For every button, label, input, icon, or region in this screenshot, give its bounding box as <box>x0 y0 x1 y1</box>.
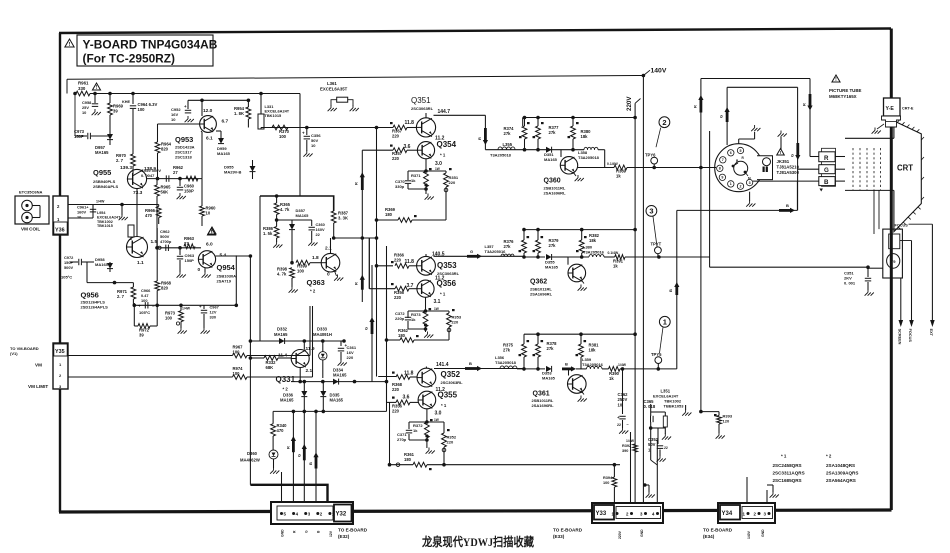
svg-text:22: 22 <box>617 423 621 427</box>
svg-text:27k: 27k <box>547 346 555 351</box>
wire 220 row <box>277 219 312 221</box>
svg-text:330: 330 <box>210 314 217 319</box>
svg-text:R961: R961 <box>78 81 89 86</box>
svg-text:18k: 18k <box>581 134 589 139</box>
capacitor C360 <box>308 220 325 246</box>
svg-text:4. 7k: 4. 7k <box>277 272 287 277</box>
wires into Y33 <box>631 428 658 506</box>
resistor R340 <box>271 411 294 436</box>
resistor R391 <box>604 251 625 269</box>
resistor R356b <box>392 397 418 414</box>
inductor L359 <box>576 357 604 369</box>
svg-text:22: 22 <box>664 446 668 450</box>
wire Q331 emitter row <box>291 368 388 384</box>
svg-text:2SA1696RL: 2SA1696RL <box>544 191 567 196</box>
svg-text:6.7: 6.7 <box>222 119 229 125</box>
svg-text:27k: 27k <box>549 130 557 135</box>
connector Y32 <box>271 502 353 524</box>
resistor R968 <box>155 228 172 305</box>
svg-text:10: 10 <box>171 117 176 122</box>
svg-text:G: G <box>470 249 473 254</box>
capacitor C952 <box>171 100 194 122</box>
diode D351 <box>544 147 558 162</box>
svg-text:Q954: Q954 <box>217 263 236 272</box>
svg-text:Y34: Y34 <box>722 511 733 517</box>
svg-text:R: R <box>354 282 359 285</box>
svg-text:2.1: 2.1 <box>325 246 332 252</box>
wire G to right <box>625 255 710 259</box>
wire Q360 emitter <box>578 167 614 169</box>
svg-text:G: G <box>305 530 309 533</box>
svg-text:11.2: 11.2 <box>436 387 446 393</box>
resistor R965 <box>155 179 172 248</box>
svg-text:Q953: Q953 <box>175 135 193 144</box>
signal arrow R up <box>693 95 704 113</box>
svg-text:220: 220 <box>392 409 400 414</box>
svg-text:* 1: * 1 <box>781 454 787 459</box>
svg-text:470: 470 <box>145 213 153 218</box>
connector Y36 <box>53 196 68 235</box>
svg-text:8: 8 <box>719 167 721 171</box>
resistor R373 <box>411 308 431 327</box>
wire 220V vertical rail <box>634 118 636 507</box>
svg-text:3.0: 3.0 <box>435 411 442 417</box>
svg-text:GND: GND <box>761 529 765 537</box>
signal arrow G down3 <box>297 444 307 460</box>
svg-text:2: 2 <box>740 185 742 189</box>
resistor R356 <box>391 283 417 300</box>
capacitor C372 <box>395 311 427 331</box>
svg-text:T3A205018: T3A205018 <box>578 155 600 160</box>
svg-text:220V: 220V <box>626 96 633 111</box>
svg-text:2. 7: 2. 7 <box>117 294 125 299</box>
wire B+ drop x300 <box>299 94 301 197</box>
transistor Q353 <box>417 252 460 277</box>
svg-text:11.2: 11.2 <box>435 276 445 282</box>
svg-text:6.0: 6.0 <box>206 242 213 248</box>
svg-text:12V: 12V <box>329 530 333 537</box>
svg-text:1: 1 <box>730 182 732 186</box>
inductor L351 block <box>644 389 692 440</box>
wire loop bottom <box>710 265 870 269</box>
svg-text:2.1: 2.1 <box>306 368 313 374</box>
svg-text:2SC3063RL: 2SC3063RL <box>441 380 464 385</box>
svg-text:(E34): (E34) <box>703 534 715 539</box>
resistor R381 <box>576 334 600 369</box>
resistor R392 <box>622 439 638 453</box>
diode D336 <box>280 380 307 412</box>
socket pins <box>717 147 753 189</box>
box R <box>819 148 836 186</box>
capacitor C963 <box>177 248 195 278</box>
callout 3 <box>646 206 657 247</box>
svg-text:Y33: Y33 <box>596 511 607 517</box>
diode D353 <box>542 366 556 381</box>
ground above Y33 <box>643 483 655 498</box>
ground socket top2 <box>778 131 787 151</box>
svg-text:Q360: Q360 <box>544 178 561 185</box>
svg-text:龙泉现代YDWJ扫描收藏: 龙泉现代YDWJ扫描收藏 <box>421 535 534 549</box>
svg-text:0: 0 <box>198 267 201 273</box>
svg-text:2SA564AQRS: 2SA564AQRS <box>826 478 856 483</box>
signal arrow G right <box>467 249 482 259</box>
transistor Q953 <box>175 108 229 160</box>
resistor R369 <box>375 207 446 222</box>
capacitor C973 <box>74 94 110 140</box>
label Y32 pins <box>281 528 368 540</box>
svg-text:18k: 18k <box>589 348 597 353</box>
svg-text:L355: L355 <box>503 142 513 147</box>
crt mask dashes <box>853 148 881 190</box>
svg-text:6: 6 <box>730 151 732 155</box>
svg-text:10: 10 <box>311 143 316 148</box>
resistor R398 <box>277 267 298 293</box>
capacitor C370 <box>395 179 428 191</box>
wire 220V rail row2 <box>522 228 637 232</box>
ground socket bottom <box>746 192 755 207</box>
transistor Q363 <box>307 246 340 294</box>
resistor R380 <box>568 118 592 150</box>
svg-text:G: G <box>719 115 724 118</box>
svg-text:27k: 27k <box>504 244 512 249</box>
svg-text:Q955: Q955 <box>93 168 111 177</box>
svg-text:R392: R392 <box>622 444 631 448</box>
connector Y-E <box>882 98 914 127</box>
transistor Q356 <box>417 276 457 306</box>
resistor R375 <box>503 334 529 369</box>
svg-text:2: 2 <box>662 118 666 127</box>
wire G loop <box>727 87 819 210</box>
wire Q363 collector row <box>331 236 379 253</box>
svg-text:TPY6: TPY6 <box>645 153 656 158</box>
wire Q354 emitter net <box>408 159 446 180</box>
svg-text:MA4062W: MA4062W <box>240 458 260 463</box>
test point TPY6 <box>645 153 658 168</box>
resistor R376 <box>504 230 530 257</box>
diode D957 <box>95 120 113 155</box>
warning triangle mid <box>207 228 215 236</box>
svg-text:T3A205016: T3A205016 <box>485 249 507 254</box>
svg-text:Y32: Y32 <box>336 512 347 518</box>
svg-text:R: R <box>693 105 698 108</box>
svg-text:* 1: * 1 <box>440 292 446 297</box>
signal arrow B right2 <box>779 203 795 213</box>
wire base vertical x386 <box>386 246 388 402</box>
svg-text:11.9: 11.9 <box>306 346 315 352</box>
svg-text:D360: D360 <box>247 451 258 456</box>
svg-text:MA165: MA165 <box>296 213 310 218</box>
wire Q954 base row <box>155 246 201 250</box>
resistor R963 <box>184 236 195 249</box>
svg-text:* 2: * 2 <box>310 289 316 294</box>
diode D333 <box>313 327 332 379</box>
resistor R962 <box>173 165 198 181</box>
ground Q363 <box>334 271 343 281</box>
capacitor C972 <box>61 255 94 280</box>
svg-text:GND: GND <box>281 529 285 537</box>
signal arrow R 2 <box>354 275 365 290</box>
wire G drive vertical2 <box>364 265 375 382</box>
svg-text:T3A205018: T3A205018 <box>490 153 512 158</box>
svg-text:TJ81A5210: TJ81A5210 <box>777 165 800 170</box>
transistor Q362 <box>530 257 587 297</box>
transistor Q955 <box>93 165 156 196</box>
label Y34 pins <box>703 528 765 540</box>
svg-text:Q361: Q361 <box>533 391 550 398</box>
label FOCUS top <box>895 224 909 228</box>
connector Y33 <box>592 503 663 523</box>
resistor R370 <box>272 125 290 139</box>
svg-text:MA165: MA165 <box>280 398 294 403</box>
box B <box>797 177 835 192</box>
wire B to right <box>620 367 677 371</box>
wire Q354 base <box>362 144 410 150</box>
wire Q955 emitter row <box>146 177 202 181</box>
ground socket top <box>739 125 761 144</box>
callout 1 <box>659 316 670 353</box>
svg-text:2SC1318: 2SC1318 <box>175 155 192 160</box>
svg-text:7: 7 <box>722 158 724 162</box>
svg-text:140V: 140V <box>747 530 751 539</box>
wires boxes to crt <box>835 157 845 182</box>
svg-text:R: R <box>286 446 291 449</box>
wire Q356 base <box>369 238 413 289</box>
capacitor C362 <box>617 367 630 434</box>
svg-text:T3A205016: T3A205016 <box>582 362 604 367</box>
resistor R390 <box>602 363 627 381</box>
svg-text:3. 3K: 3. 3K <box>338 216 348 221</box>
svg-text:3: 3 <box>649 207 653 216</box>
svg-text:330: 330 <box>78 86 86 91</box>
svg-text:VM: VM <box>35 363 42 368</box>
wire B down <box>314 410 318 506</box>
wire base vertical x376 <box>376 127 378 377</box>
svg-text:Y-BOARD TNP4G034AB: Y-BOARD TNP4G034AB <box>83 38 218 52</box>
wire Q353 collector out <box>426 254 524 256</box>
svg-text:1k: 1k <box>616 174 621 179</box>
diode D958 <box>95 257 113 272</box>
inductor L361 <box>320 81 359 111</box>
diode D955 <box>224 160 256 179</box>
svg-text:140V: 140V <box>651 68 667 75</box>
svg-text:D332: D332 <box>277 327 288 332</box>
signal arrow R 1 <box>354 172 365 190</box>
svg-text:+: + <box>199 304 202 309</box>
svg-text:JK351: JK351 <box>777 159 790 164</box>
svg-text:0. 018: 0. 018 <box>644 404 656 409</box>
svg-text:1k: 1k <box>609 376 614 381</box>
label 220V <box>626 96 641 118</box>
crt funnel <box>894 120 924 232</box>
svg-text:MA165: MA165 <box>542 376 556 381</box>
svg-text:100: 100 <box>165 316 173 321</box>
capacitor C961 <box>77 205 96 220</box>
capacitor C371 <box>397 430 429 442</box>
wire Q954 emitter out <box>216 254 253 258</box>
svg-text:R: R <box>354 182 359 185</box>
svg-text:B: B <box>308 462 313 465</box>
capacitor C966 <box>138 288 155 315</box>
label CRT <box>897 164 913 173</box>
svg-text:4. 7k: 4. 7k <box>280 207 290 212</box>
svg-text:220: 220 <box>394 295 402 300</box>
svg-text:(For TC-2950RZ): (For TC-2950RZ) <box>83 52 176 66</box>
wire Q956 emitter <box>87 262 133 287</box>
wire G signal row <box>522 255 545 259</box>
resistor R974 <box>233 366 248 379</box>
resistor R362 <box>385 291 449 342</box>
diode D334 <box>333 368 347 385</box>
wire focus lead <box>900 224 933 342</box>
svg-text:M: M <box>748 177 751 181</box>
signal arrow G up <box>719 107 730 122</box>
resistor R973 <box>165 305 191 333</box>
diode D332 <box>274 327 288 345</box>
wire G drive vertical <box>368 238 370 289</box>
svg-text:220: 220 <box>392 134 400 139</box>
svg-text:3.1: 3.1 <box>434 299 441 305</box>
capacitor C356 <box>302 128 321 157</box>
svg-text:39: 39 <box>113 109 118 114</box>
svg-text:EXCEL6A35T: EXCEL6A35T <box>320 87 348 92</box>
capacitor C352 <box>648 428 668 462</box>
wire B signal row <box>517 367 545 371</box>
signal arrow R down3 <box>286 436 297 452</box>
resistor R969 <box>108 94 124 121</box>
ground Q356 net <box>424 323 433 337</box>
svg-text:MA4091H: MA4091H <box>313 332 332 337</box>
svg-text:0. 001: 0. 001 <box>844 281 856 286</box>
wire R down <box>292 411 294 506</box>
diode D335 <box>320 382 343 412</box>
resistor R374 <box>504 118 530 150</box>
svg-text:144.7: 144.7 <box>438 109 451 115</box>
svg-text:500V: 500V <box>64 265 73 270</box>
signal arrow R down2 <box>802 94 813 111</box>
ground Y36 area <box>119 205 128 221</box>
stamp text <box>421 535 534 549</box>
diode D959 <box>216 131 231 156</box>
wire Q351 collector out <box>426 113 485 150</box>
svg-text:Q331: Q331 <box>276 375 296 384</box>
svg-text:TBBK1053: TBBK1053 <box>664 404 685 409</box>
capacitor C361 <box>338 341 357 366</box>
svg-text:Q353: Q353 <box>437 261 457 270</box>
svg-text:L361: L361 <box>327 81 337 86</box>
wire 140V rail top <box>67 76 643 94</box>
inductor L380 <box>568 245 605 259</box>
wire G down <box>303 411 305 506</box>
socket JK351 <box>715 144 773 192</box>
ground Q354 net <box>424 183 433 199</box>
svg-text:1.8: 1.8 <box>312 255 319 261</box>
resistor R377 <box>533 118 560 150</box>
svg-text:220: 220 <box>452 320 459 325</box>
svg-text:Q352: Q352 <box>441 370 461 379</box>
label Y33 pins <box>553 528 644 540</box>
resistor R353 <box>447 309 462 340</box>
crt neck <box>845 138 894 190</box>
svg-text:390: 390 <box>622 449 628 453</box>
svg-text:105°C: 105°C <box>139 310 150 315</box>
svg-text:M68KTY165X: M68KTY165X <box>829 94 857 99</box>
svg-text:2SC3063RL: 2SC3063RL <box>411 106 434 111</box>
signal arrow R down <box>477 128 488 145</box>
svg-text:SCREEN: SCREEN <box>897 329 901 345</box>
svg-text:1W: 1W <box>435 167 440 171</box>
transistor Q956 <box>127 237 158 267</box>
svg-text:220: 220 <box>347 355 354 360</box>
warning triangle Q954 <box>208 227 216 235</box>
svg-text:R: R <box>824 155 829 162</box>
wire ext lead <box>929 224 935 336</box>
svg-text:73.3: 73.3 <box>133 190 143 196</box>
capacitor C960 <box>177 179 195 200</box>
svg-text:R: R <box>477 137 482 140</box>
svg-text:180: 180 <box>398 333 406 338</box>
svg-text:(E32): (E32) <box>338 534 350 539</box>
svg-text:39: 39 <box>139 333 144 338</box>
svg-text:220: 220 <box>392 387 400 392</box>
svg-text:141.4: 141.4 <box>436 362 449 368</box>
svg-text:(E33): (E33) <box>553 534 565 539</box>
ground Y-E <box>872 124 884 134</box>
resistor R368 <box>392 372 417 393</box>
diode D357 <box>289 208 309 263</box>
capacitor C351 <box>844 267 874 296</box>
svg-text:105°C: 105°C <box>61 275 72 280</box>
transistor Q331 <box>276 341 315 392</box>
svg-text:27k: 27k <box>549 243 557 248</box>
label KHE <box>122 100 130 104</box>
wire Q351 base <box>377 127 394 129</box>
capacitor C958 <box>82 94 101 116</box>
label JK351 <box>777 149 800 175</box>
transistor Q954 <box>198 242 237 284</box>
svg-text:G: G <box>790 154 795 157</box>
svg-text:Y36: Y36 <box>55 228 65 234</box>
svg-text:180: 180 <box>385 212 393 217</box>
svg-text:330p: 330p <box>395 184 405 189</box>
wire Q953 base drop <box>201 131 202 179</box>
svg-text:0. 0047: 0. 0047 <box>141 173 155 178</box>
wire vertical x250 <box>249 256 251 485</box>
signal arrow B down3 <box>308 452 319 468</box>
wire Q355 base <box>387 395 410 403</box>
wire Q352 base <box>378 371 413 377</box>
wire Q953 collector rail <box>188 99 250 117</box>
svg-text:2SB940APLS: 2SB940APLS <box>93 184 118 189</box>
svg-text:CRT: CRT <box>897 164 913 173</box>
svg-text:11.8: 11.8 <box>405 259 415 265</box>
svg-text:3.7: 3.7 <box>407 283 414 289</box>
svg-text:TPY5: TPY5 <box>651 352 662 357</box>
svg-text:KHE: KHE <box>122 100 130 104</box>
svg-text:10: 10 <box>77 214 81 219</box>
resistor R367 <box>390 122 417 139</box>
wire R signal row <box>485 148 574 152</box>
wire socket B pin <box>753 180 797 182</box>
svg-text:Y-E: Y-E <box>886 106 895 112</box>
svg-text:139.3: 139.3 <box>120 165 132 171</box>
wire Y36 row1 <box>68 200 159 207</box>
resistor R972 <box>134 305 157 337</box>
wire Q331 lower row <box>292 382 387 414</box>
wire crt leads down <box>874 190 879 234</box>
resistor R386 <box>263 220 282 248</box>
svg-text:0: 0 <box>327 272 330 278</box>
svg-text:* 1: * 1 <box>441 403 447 408</box>
